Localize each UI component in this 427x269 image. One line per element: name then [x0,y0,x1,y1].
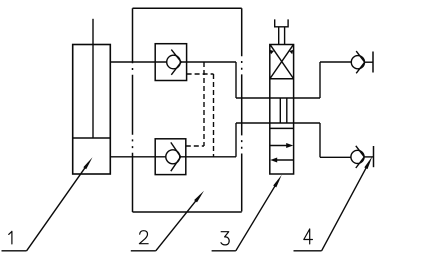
leader 2 arrowhead [194,191,204,203]
label 3 underline [212,250,236,252]
pilot check valve C2 seat [171,142,181,171]
directional valve 3 divider (above arrows box) [270,127,294,129]
leader 2 [156,195,201,251]
leader 4 arrowhead [364,156,372,169]
leader 1 [27,163,89,251]
wire: cylinder bottom port to check valve C2 [110,156,155,158]
pilot check valve C1 through line [155,61,186,63]
cylinder 1 body [73,45,111,175]
pilot check valve C1 body [155,44,186,81]
wire: port line y98 through valve [236,97,320,99]
directional valve 3 centre blocked path vertical 2 [286,98,288,123]
directional valve 3 X arrowhead 2 [270,50,274,54]
coupling 4 bottom: stub to interface [364,156,373,158]
pilot check valve C2 ball [166,150,180,164]
label 2 [139,231,148,244]
enclosure box 2 right edge (chain line) [241,8,243,212]
directional valve 3 flow arrow right [270,145,289,147]
coupling 4 bottom: ball [351,150,364,163]
leader 1 arrowhead [83,157,92,169]
pilot line from C1 (dashed horizontal) [187,73,214,75]
pilot check valve C1 seat [171,50,181,75]
enclosure box 2 top edge [133,7,242,9]
coupling 4 top: interface bar [372,52,374,73]
wire: port line y123 through valve [236,122,320,124]
leader 3 arrowhead [273,175,282,188]
wire: corner up to valve B port [235,123,237,157]
wire: to top coupling [320,61,351,63]
wire: corner down to valve A port [235,62,237,98]
pilot line from C2 (dashed horizontal) [186,145,204,147]
wire: drop to bottom coupling [319,123,321,157]
directional valve 3 divider (below X box) [270,78,294,80]
cylinder 1 piston [73,137,111,139]
cylinder 1 piston rod [92,19,94,138]
directional valve 3 X diagonal 2 [271,45,294,78]
pilot line vertical x213.5 (dashed) [213,74,215,157]
push button actuator of valve 3 [275,19,288,26]
wire: to bottom coupling [320,156,351,158]
wire: C1 output to corner [187,61,236,63]
pilot check valve C2 body [155,139,186,175]
push button stem left [278,27,280,45]
enclosure box 2 bottom edge [133,211,242,213]
pilot line vertical x204 (dashed) [203,62,205,146]
coupling 4 top: check ball seat [356,51,365,73]
label 3 [221,232,229,245]
label 1 underline [2,250,27,252]
label 2 underline [131,250,156,252]
wire: riser to top coupling [319,62,321,98]
leader 3 [236,180,279,251]
label 1 [9,231,12,244]
pilot check valve C2 through line [155,156,186,158]
directional valve 3 centre blocked path vertical 1 [279,98,281,123]
leader 4 [322,162,370,251]
enclosure box 2 left edge (chain line) [132,8,134,212]
coupling 4 top: ball [351,56,364,69]
directional valve 3 X diagonal 1 [271,45,294,78]
directional valve 3 flow arrow left [275,159,294,161]
pilot check valve C1 ball [167,55,181,69]
directional valve 3 X arrowhead 1 [289,50,293,54]
label 4 underline [294,250,322,252]
coupling 4 bottom: interface bar [373,146,375,167]
directional valve 3 body [270,45,294,175]
wire: C2 output to corner [186,156,236,158]
coupling 4 top: stub to interface [365,61,374,63]
push button stem right [284,27,286,45]
label 4 [304,229,313,244]
wire: cylinder top port to check valve C1 [110,61,155,63]
coupling 4 bottom: check ball seat [356,146,365,168]
